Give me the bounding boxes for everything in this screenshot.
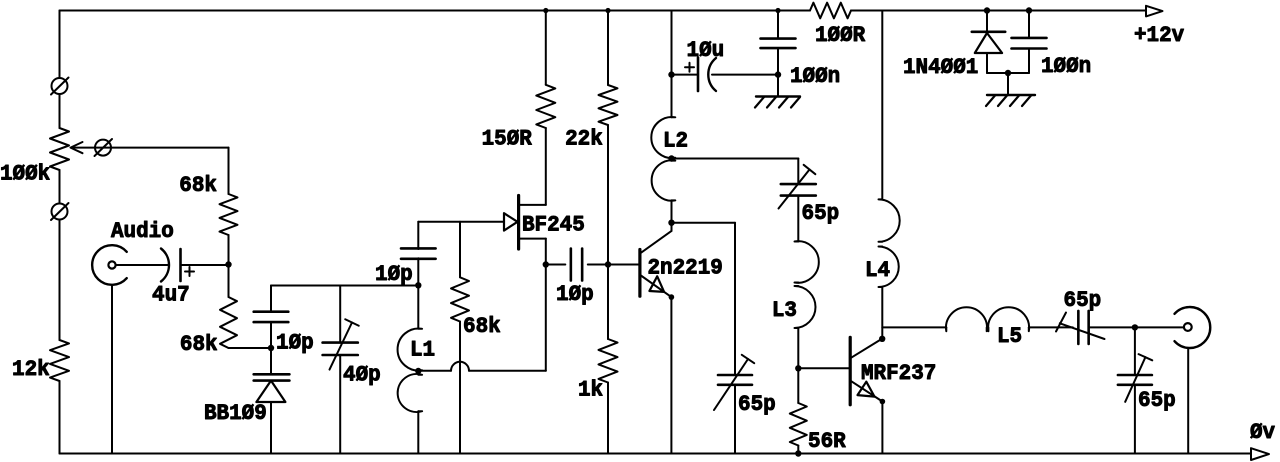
svg-text:65p: 65p (738, 391, 776, 417)
svg-text:L3: L3 (772, 297, 797, 323)
svg-text:22k: 22k (565, 126, 603, 152)
svg-text:L1: L1 (410, 337, 435, 363)
svg-text:12k: 12k (12, 356, 50, 382)
svg-text:65p: 65p (1064, 287, 1102, 313)
svg-text:1Øp: 1Øp (276, 330, 314, 356)
svg-text:1N4ØØ1: 1N4ØØ1 (903, 54, 978, 80)
svg-text:+12v: +12v (1134, 22, 1185, 48)
svg-text:L4: L4 (865, 257, 890, 283)
svg-text:56R: 56R (808, 428, 846, 454)
svg-text:L2: L2 (663, 128, 688, 154)
svg-text:15ØR: 15ØR (482, 126, 533, 152)
svg-text:1ØØk: 1ØØk (0, 161, 50, 187)
svg-text:65p: 65p (1138, 387, 1176, 413)
svg-text:68k: 68k (179, 172, 217, 198)
svg-text:1ØØn: 1ØØn (1041, 53, 1091, 79)
svg-text:Audio: Audio (111, 218, 174, 244)
svg-text:68k: 68k (180, 331, 218, 357)
svg-text:1k: 1k (578, 377, 603, 403)
svg-text:BB1Ø9: BB1Ø9 (204, 400, 267, 426)
svg-text:1ØØn: 1ØØn (790, 63, 840, 89)
svg-text:1Øp: 1Øp (556, 281, 594, 307)
svg-text:4u7: 4u7 (152, 282, 190, 308)
svg-text:68k: 68k (463, 313, 501, 339)
svg-text:65p: 65p (802, 200, 840, 226)
svg-text:BF245: BF245 (522, 212, 585, 238)
svg-text:2n2219: 2n2219 (648, 255, 723, 281)
svg-text:MRF237: MRF237 (861, 360, 936, 386)
svg-text:4Øp: 4Øp (343, 362, 381, 388)
svg-text:1Øp: 1Øp (375, 261, 413, 287)
svg-text:Øv: Øv (1250, 419, 1276, 445)
svg-text:L5: L5 (997, 323, 1022, 349)
svg-text:1Øu: 1Øu (687, 37, 725, 63)
svg-text:1ØØR: 1ØØR (815, 22, 866, 48)
